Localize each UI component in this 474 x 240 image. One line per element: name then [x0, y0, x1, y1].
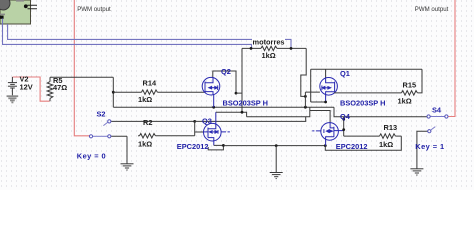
wire Q1 gate link [305, 92, 320, 107]
wire left vertical bus [112, 77, 114, 107]
wire Q1 left box [311, 69, 326, 102]
ground S4 [410, 169, 423, 175]
board pin stubs [28, 5, 38, 9]
wire motor right vertical with jog [301, 48, 306, 96]
svg-text:47Ω: 47Ω [53, 83, 67, 92]
battery V2 [8, 77, 17, 95]
wire bottom-left horizontal y107 [113, 106, 334, 108]
wire Q2 source stub [213, 94, 215, 107]
transistor Q4 [312, 122, 344, 140]
resistor motorres (1k) [242, 46, 306, 51]
resistor R14 [113, 90, 205, 95]
ground mid [270, 146, 283, 179]
wire Q3 drain stub [215, 112, 217, 123]
svg-text:EPC2012: EPC2012 [177, 142, 209, 151]
svg-text:motorres: motorres [253, 38, 285, 47]
node Q2 source [212, 106, 215, 109]
node motor right bus [304, 106, 307, 109]
transistor Q2 [202, 77, 220, 95]
wire jog to motor-left bus [236, 48, 242, 112]
svg-text:Q3: Q3 [202, 117, 212, 126]
svg-text:Key = 0: Key = 0 [77, 152, 106, 161]
svg-text:R15: R15 [403, 81, 417, 90]
wire ground rail right jog [325, 136, 401, 150]
node gate link [304, 95, 307, 98]
wire R5 top to node [50, 76, 113, 78]
wire Q4 right vertical [343, 117, 345, 136]
node Q2 drain jog [235, 92, 238, 95]
wire PWM output right (red vertical) [448, 0, 455, 117]
board left pin [0, 16, 4, 19]
svg-text:12V: 12V [20, 82, 33, 91]
svg-text:Q1: Q1 [340, 69, 350, 78]
svg-text:1kΩ: 1kΩ [138, 140, 152, 149]
svg-text:PWM output: PWM output [415, 6, 449, 13]
board pin dot [24, 4, 28, 8]
wire S2 row to cross [195, 117, 306, 122]
wire Q3 drain row y112 [216, 112, 247, 117]
node motorres left [250, 47, 253, 50]
svg-text:PWM output: PWM output [77, 6, 111, 13]
node ground rail Q3 [222, 144, 225, 147]
switch S4 [417, 115, 448, 169]
wire Q2 drain top [213, 71, 236, 93]
switch S2 [89, 120, 194, 138]
wire ground rail left [223, 145, 325, 147]
wire battery red [12, 77, 49, 101]
transistor Q3 [204, 123, 230, 141]
label motorres [252, 38, 285, 46]
node Q1 source [324, 101, 327, 104]
svg-text:R2: R2 [143, 118, 152, 127]
wire Q3 source stub [213, 140, 215, 145]
node on y112 [241, 111, 244, 114]
svg-text:S2: S2 [97, 110, 106, 119]
wire y110.5 to Q4 drain [310, 111, 330, 123]
arduino board U1 [0, 0, 37, 24]
node Q4 gate [342, 128, 345, 131]
svg-text:R13: R13 [384, 123, 398, 132]
svg-text:1kΩ: 1kΩ [262, 51, 276, 60]
svg-text:1kΩ: 1kΩ [138, 95, 152, 104]
svg-text:Key = 1: Key = 1 [415, 142, 444, 151]
wire Q1 drain top rail [311, 69, 422, 77]
svg-text:Q2: Q2 [221, 67, 231, 76]
resistor R15 [334, 69, 422, 95]
svg-text:BSO203SP H: BSO203SP H [223, 98, 268, 107]
node motorres right [290, 47, 293, 50]
svg-text:S4: S4 [432, 106, 442, 115]
svg-text:EPC2012: EPC2012 [336, 142, 368, 151]
wire Q3 source jog [208, 145, 223, 150]
wire blue PWM1 [3, 19, 252, 49]
node Q4 source [324, 144, 327, 147]
node S2/R2/Q3 gate [193, 120, 196, 123]
wire L0 drop at x334 [334, 107, 427, 117]
resistor R13 [344, 134, 402, 139]
svg-text:R14: R14 [143, 79, 157, 88]
svg-text:1kΩ: 1kΩ [379, 140, 393, 149]
wire Q1 source stub [325, 95, 327, 103]
svg-text:1kΩ: 1kΩ [398, 97, 412, 106]
wire blue PWM2 [8, 24, 291, 48]
svg-text:BSO203SP H: BSO203SP H [340, 98, 385, 107]
resistor R5 (vertical) [47, 77, 53, 101]
wire y116.8 cross row [247, 107, 310, 117]
resistor R2 [138, 134, 195, 139]
svg-text:Q4: Q4 [340, 112, 351, 121]
ground S2 [121, 136, 134, 170]
wire Q3 gate drop [195, 121, 204, 135]
node R14 branch [112, 91, 115, 94]
transistor Q1 [320, 77, 338, 95]
node Q4 feed [342, 118, 345, 121]
node ground tap [275, 144, 278, 147]
wire Q4 source stub [325, 140, 327, 146]
ground battery (gray) [7, 96, 19, 102]
wire PWM output left (red vertical) [74, 0, 89, 136]
